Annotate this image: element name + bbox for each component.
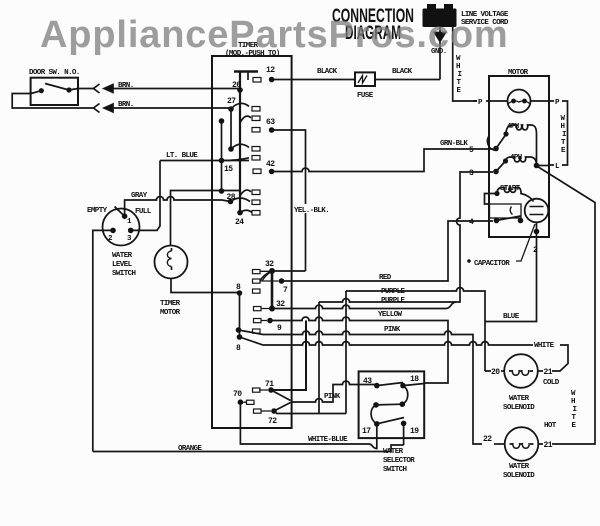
svg-text:18: 18 — [410, 375, 419, 384]
wire black fuse to plug — [375, 79, 440, 81]
svg-text:GRAY: GRAY — [131, 192, 148, 200]
solenoid hot — [503, 427, 538, 480]
fuse F1 — [355, 72, 375, 100]
svg-text:8: 8 — [236, 344, 241, 353]
svg-text:H: H — [456, 63, 460, 71]
svg-text:I: I — [562, 131, 566, 139]
wire 20 — [485, 370, 504, 372]
svg-text:12: 12 — [266, 66, 275, 75]
svg-text:MOTOR: MOTOR — [508, 69, 529, 77]
svg-text:T: T — [561, 139, 566, 147]
svg-text:LEVEL: LEVEL — [112, 261, 133, 269]
svg-text:PINK: PINK — [384, 326, 401, 334]
motor pin 4 and start contact — [494, 218, 500, 224]
timer motor TM — [155, 246, 188, 318]
svg-text:WHITE-BLUE: WHITE-BLUE — [308, 436, 348, 444]
selector 19 stem — [403, 423, 405, 445]
timer pin 32 lower — [269, 306, 275, 312]
timer pin 12 — [253, 78, 261, 83]
wire GRAY water level sw 1 to timer 28 — [125, 197, 231, 217]
wire P right white bracket to L — [549, 101, 568, 165]
svg-text:26: 26 — [232, 81, 241, 90]
wire GRN-BLK timer 42 to motor 5 — [272, 149, 493, 172]
svg-text:PURPLE: PURPLE — [381, 288, 406, 296]
svg-text:WATER: WATER — [383, 448, 404, 456]
svg-text:TIMER: TIMER — [160, 300, 181, 308]
motor box — [489, 69, 549, 237]
watermark — [40, 14, 600, 57]
svg-text:E: E — [572, 422, 577, 430]
motor pin 3 — [493, 169, 499, 175]
svg-text:DOOR SW. N.O.: DOOR SW. N.O. — [29, 69, 80, 77]
svg-text:LT. BLUE: LT. BLUE — [166, 152, 198, 160]
motor armature circle — [508, 90, 531, 113]
timer pin 6/8 pair — [236, 327, 242, 333]
wire P left — [473, 100, 489, 102]
timer pin 71 — [268, 387, 274, 393]
wire black timer 12 to fuse — [272, 79, 355, 81]
wire BLUE motor 2 to purple1 riser — [485, 232, 537, 322]
riser x346 purple1 to 72 — [345, 291, 347, 414]
wire into selector pin 18 — [403, 384, 424, 386]
svg-text:T: T — [457, 79, 462, 87]
terminal links middle section — [243, 271, 278, 411]
wire WHITE pin 6/8 to solenoid 21 cold — [240, 337, 569, 371]
wire wls pin2 down to orange — [93, 230, 113, 451]
svg-text:P: P — [478, 99, 483, 107]
connector lower — [94, 104, 114, 113]
svg-text:63: 63 — [266, 118, 275, 127]
wire PINK 71/72 common to selector 43 — [291, 381, 377, 402]
svg-text:W: W — [561, 115, 566, 123]
wire 32 lower to purple2 jog — [272, 302, 456, 309]
svg-text:7: 7 — [283, 286, 288, 295]
svg-text:19: 19 — [410, 427, 419, 436]
wire BRN. to timer pin 27 — [113, 107, 231, 109]
svg-text:9: 9 — [277, 324, 282, 333]
capacitor C1 — [525, 199, 549, 235]
svg-text:FULL: FULL — [135, 208, 152, 216]
wire white motor L to hot solenoid — [538, 167, 596, 445]
wire BRN. to timer pin 26 — [113, 88, 240, 90]
title CONNECTION DIAGRAM — [332, 6, 414, 44]
wire LT. BLUE to timer pin 15 — [133, 161, 249, 231]
wire 32 to yel-blk corner — [272, 270, 306, 272]
svg-text:E: E — [457, 87, 462, 95]
svg-text:T: T — [572, 414, 577, 422]
svg-text:FUSE: FUSE — [357, 92, 374, 100]
timer vertical 8 to 6/8 — [239, 293, 241, 337]
svg-text:CAPACITOR: CAPACITOR — [474, 260, 510, 268]
svg-text:H: H — [561, 123, 565, 131]
svg-text:YELLOW: YELLOW — [378, 311, 403, 319]
svg-text:HOT: HOT — [544, 422, 557, 430]
wire 22 — [494, 443, 505, 445]
svg-text:L: L — [555, 163, 560, 171]
wire pin 71 to x306 riser — [271, 321, 306, 391]
timer pin 70 — [238, 399, 244, 405]
line voltage service cord label — [461, 11, 509, 27]
wire YEL.-BLK. from pin 63 — [272, 130, 306, 271]
timer pin 32 upper — [269, 268, 275, 274]
svg-text:PURPLE: PURPLE — [381, 297, 406, 305]
start switch loop — [485, 194, 498, 205]
timer top contact bar — [234, 70, 258, 73]
door switch DOOR SW. N.O. — [29, 69, 80, 105]
timer pin 27 — [228, 106, 234, 112]
timer vertical 27-149 — [230, 109, 232, 149]
timer contact row y192 — [252, 190, 260, 195]
svg-text:RED: RED — [379, 274, 392, 282]
timer contact row y157 — [252, 156, 260, 161]
timer block box — [212, 42, 292, 428]
svg-text:17: 17 — [362, 427, 371, 436]
capacitor label — [467, 224, 535, 268]
vertical WHITE label right — [571, 390, 577, 430]
svg-text:WATER: WATER — [509, 395, 530, 403]
timer pin 42 — [253, 169, 261, 174]
svg-text:ORANGE: ORANGE — [178, 445, 203, 453]
timer pin 7 — [279, 278, 285, 284]
svg-text:22: 22 — [483, 435, 492, 444]
wire pin 72 link to risers — [274, 411, 346, 414]
svg-text:1: 1 — [127, 218, 132, 226]
wire timer motor top to bus — [171, 191, 241, 246]
timer pin 24 — [237, 210, 243, 216]
svg-text:I: I — [573, 406, 577, 414]
svg-text:BLACK: BLACK — [317, 68, 338, 76]
wire RED pin7 to motor 4 — [282, 221, 494, 281]
svg-text:3: 3 — [469, 169, 474, 178]
svg-text:W: W — [571, 390, 576, 398]
wire ORANGE bottom — [93, 445, 404, 452]
timer pin 26 — [237, 87, 243, 93]
wire brn upper: door sw to connector — [69, 89, 94, 91]
timer pin 28 — [228, 199, 234, 205]
wire 21 hot — [538, 443, 558, 445]
svg-text:72: 72 — [268, 417, 277, 426]
svg-text:SOLENOID: SOLENOID — [503, 472, 535, 480]
svg-text:WATER: WATER — [509, 463, 530, 471]
svg-text:BLACK: BLACK — [392, 68, 413, 76]
svg-text:H: H — [571, 398, 575, 406]
svg-text:BRN.: BRN. — [118, 101, 134, 109]
wire timer motor bottom to pin 8 — [171, 279, 240, 293]
connector upper (plug/receptacle) — [94, 84, 114, 93]
svg-text:MOTOR: MOTOR — [160, 309, 181, 317]
wire black: plug to fuse drop — [439, 42, 441, 80]
svg-text:EMPTY: EMPTY — [87, 207, 108, 215]
timer 32-32 heavy link — [271, 271, 274, 309]
timer pin 8 (upper) — [237, 290, 243, 296]
svg-text:2: 2 — [108, 235, 113, 243]
plug (line cord) — [423, 4, 457, 27]
svg-text:WHITE: WHITE — [534, 342, 555, 350]
timer pin 9 — [267, 318, 273, 324]
wire PINK pin 6/8 to solenoid 22 — [239, 330, 483, 444]
svg-text:COLD: COLD — [543, 379, 560, 387]
svg-text:71: 71 — [265, 380, 274, 389]
svg-text:24: 24 — [235, 218, 244, 227]
svg-text:PINK: PINK — [324, 393, 341, 401]
wire 21 cold — [538, 370, 552, 372]
vertical WHITE label (cord) — [456, 55, 462, 95]
svg-text:4: 4 — [469, 218, 474, 227]
svg-text:42: 42 — [266, 160, 275, 169]
wire PURPLE2 to motor 3 — [319, 172, 493, 302]
timer left vertical (pin 15) — [221, 121, 223, 191]
svg-text:70: 70 — [233, 390, 242, 399]
svg-text:SELECTOR: SELECTOR — [383, 457, 415, 465]
wire WHITE-BLUE pin 70 to selector 17 — [240, 402, 376, 448]
timer row y291 — [253, 289, 261, 293]
wire brn lower: door sw loop — [12, 91, 93, 108]
svg-text:BRN.: BRN. — [118, 82, 134, 90]
svg-text:5: 5 — [469, 146, 474, 155]
svg-text:SOLENOID: SOLENOID — [503, 404, 535, 412]
timer bus — [239, 72, 241, 213]
svg-text:15: 15 — [224, 165, 233, 174]
svg-text:SWITCH: SWITCH — [383, 466, 407, 474]
svg-text:P: P — [555, 99, 560, 107]
svg-text:GRN-BLK: GRN-BLK — [440, 140, 468, 148]
svg-text:21: 21 — [544, 368, 553, 377]
svg-text:21: 21 — [544, 441, 553, 450]
svg-text:SWITCH: SWITCH — [112, 270, 136, 278]
motor pin 5 — [493, 146, 499, 152]
svg-text:WATER: WATER — [112, 252, 133, 260]
timer pin 63 — [252, 128, 260, 133]
wire YELLOW pin 9 to selector 18 — [270, 317, 448, 383]
svg-text:32: 32 — [265, 260, 274, 269]
svg-text:YEL.-BLK.: YEL.-BLK. — [294, 207, 329, 215]
solenoid cold — [503, 354, 538, 412]
71/72 contact blades — [271, 390, 291, 411]
svg-text:BLUE: BLUE — [503, 313, 520, 321]
riser x319 purple2 to 72 — [318, 302, 320, 414]
timer contact row y118 — [252, 116, 260, 121]
water selector switch — [359, 371, 425, 474]
wire white: plug right to motor P — [453, 27, 477, 101]
timer pin 72 — [271, 408, 277, 414]
svg-text:43: 43 — [363, 377, 372, 386]
svg-text:I: I — [458, 71, 462, 79]
water level switch — [87, 207, 152, 279]
wire PURPLE1 — [346, 288, 485, 372]
ground symbol GND — [431, 27, 447, 56]
svg-text:E: E — [561, 147, 566, 155]
svg-text:20: 20 — [491, 368, 500, 377]
